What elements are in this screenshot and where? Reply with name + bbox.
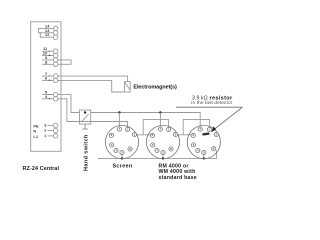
junction node screen detector 1: [121, 157, 123, 159]
terminal 14: [39, 26, 58, 31]
junction node bus A to detector 1: [118, 111, 120, 113]
jumper link between terminals 9 and 8: [58, 60, 71, 64]
electromagnet coil symbol: [124, 82, 130, 92]
wire link detector 2 to detector 3: [178, 119, 210, 134]
label RM 4000 or WM 4000 with standard base: [159, 163, 197, 181]
detector 3 pins: [191, 127, 218, 155]
resistor 3.9k inside last detector: [202, 132, 209, 135]
hand switch S1: [80, 110, 91, 129]
wire detector 2 screen drop: [162, 155, 164, 159]
wire terminal 7 to electromagnet top: [58, 76, 128, 82]
detector 1 pins: [109, 127, 136, 155]
junction node bus A to detector 2: [159, 111, 161, 113]
svg-text:standard base: standard base: [159, 175, 197, 181]
terminal 3 PE: [48, 123, 58, 128]
terminal 8: [42, 62, 58, 67]
junction node screen detector 3: [203, 157, 205, 159]
wire bus A drop to detector 2 pin 1: [159, 113, 161, 128]
svg-text:in the last detector: in the last detector: [191, 100, 232, 105]
terminal 13: [39, 31, 58, 36]
terminal 12: [40, 35, 58, 40]
svg-text:Screen: Screen: [112, 163, 132, 169]
terminal 1 L1: [48, 134, 58, 139]
label pointer underline: [176, 106, 243, 108]
bus A wire from hand switch to last detector: [91, 113, 201, 128]
svg-text:RZ-24 Central: RZ-24 Central: [23, 166, 60, 172]
detector 2 pins: [150, 127, 177, 155]
terminal 2 N: [48, 128, 58, 133]
wire bus A drop to detector 1 pin 1: [118, 113, 120, 128]
screen wire bus: [98, 151, 217, 159]
hand switch pivot node: [84, 111, 86, 113]
terminal 11 minus: [42, 49, 58, 54]
svg-text:12: 12: [45, 32, 50, 37]
wire link detector 1 to detector 2: [137, 120, 169, 135]
wire terminal 4 to detector 1 pin 2 (bus B): [58, 99, 128, 128]
detector pin numbers: [111, 127, 218, 155]
label pointer arrow to resistor: [211, 107, 242, 132]
detector 1 base outline: [105, 125, 138, 158]
terminal 4 plus: [42, 97, 58, 102]
terminal 6 plus: [42, 78, 58, 83]
terminal 7 minus: [42, 74, 58, 79]
terminal strip box RZ-24: [31, 22, 61, 152]
terminal digit labels group: [33, 23, 51, 138]
svg-text:L1: L1: [33, 134, 38, 139]
wire terminal 6 to electromagnet bottom: [58, 80, 125, 92]
link bracket 14-13: [39, 28, 41, 32]
junction node screen detector 2: [162, 157, 164, 159]
terminal 9: [42, 58, 58, 63]
wire terminal 5 to hand switch: [58, 95, 80, 113]
wire detector 3 screen drop: [203, 155, 205, 159]
svg-text:Hand switch: Hand switch: [84, 134, 90, 171]
terminal 5 minus: [42, 92, 58, 97]
detector 3 base outline (last detector): [187, 125, 220, 158]
link bracket 13-12: [40, 33, 42, 37]
svg-text:Electromagnet(s): Electromagnet(s): [133, 84, 177, 90]
svg-text:N: N: [33, 129, 36, 134]
wire detector 1 screen drop: [121, 155, 123, 159]
detector 2 base outline: [146, 125, 179, 158]
terminal 10 plus: [42, 53, 58, 58]
